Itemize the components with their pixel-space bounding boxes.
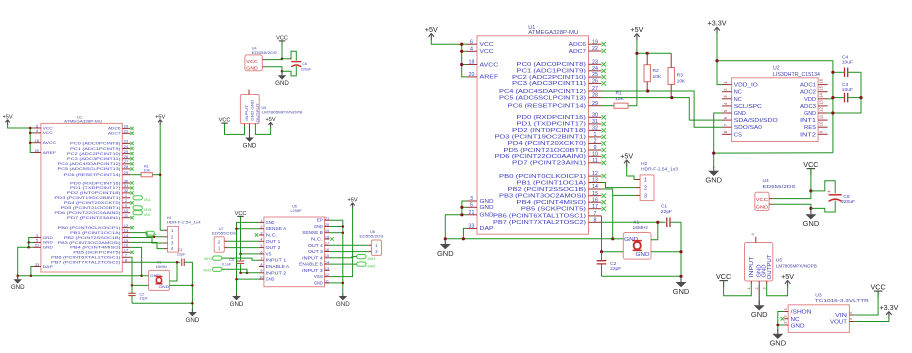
svg-text:OUTPUT: OUTPUT (255, 103, 260, 123)
wire U2 GND pin5 to ground (714, 113, 722, 166)
svg-text:VCC: VCC (716, 272, 731, 281)
crystal X1 16MHz (left page) (149, 260, 170, 290)
svg-text:2: 2 (644, 186, 647, 192)
svg-text:22: 22 (124, 129, 129, 134)
wire U1 GND pins to ground rail (445, 201, 466, 239)
junction dot U4 GND node (left) (281, 70, 284, 73)
svg-text:GND: GND (636, 252, 650, 258)
svg-text:GND: GND (43, 241, 54, 245)
wire bottom ground rail (crystal) (602, 275, 682, 277)
svg-text:VCC: VCC (803, 160, 818, 169)
svg-text:20: 20 (325, 223, 329, 227)
wire U6 INPUT4 to MH3 (330, 257, 357, 258)
svg-text:PC5 (ADC5SCLPCINT13): PC5 (ADC5SCLPCINT13) (499, 95, 586, 101)
svg-text:PC4 (ADC4SDAPCINT12): PC4 (ADC4SDAPCINT12) (499, 89, 586, 95)
no-connect X on U6 N.C. left (255, 233, 258, 236)
wire U5 GND down (758, 285, 760, 305)
svg-text:21: 21 (325, 217, 329, 221)
wire PC5 (SCL) to U2 SDA/SDI/SDO (602, 98, 723, 121)
net labels PD3 PD5 PD6 (left page) (133, 196, 152, 217)
svg-text:VCC: VCC (480, 49, 494, 55)
wire U4 VCC pin to node (left) (265, 58, 282, 61)
junction dot U4 VCC node (809, 189, 812, 192)
svg-text:22pF: 22pF (177, 253, 186, 257)
wire left XOUT up to PB7 wire (169, 262, 177, 281)
svg-text:11: 11 (819, 114, 824, 119)
svg-text:NC: NC (734, 90, 742, 96)
MCU U1 ATMEGA328P-MU (right page) (467, 25, 606, 234)
svg-text:AVCC: AVCC (43, 141, 57, 145)
svg-text:R2: R2 (653, 68, 660, 74)
svg-text:PB1 (PCINT1OC1A): PB1 (PCINT1OC1A) (516, 180, 586, 186)
svg-text:H1: H1 (167, 216, 172, 220)
svg-text:VIN: VIN (835, 313, 847, 319)
MCU U1 ATMEGA328P-MU (left page) (33, 114, 134, 272)
svg-text:17: 17 (592, 204, 598, 210)
capacitor C1 22pF (left page) (177, 248, 186, 266)
svg-text:10K: 10K (653, 74, 662, 80)
svg-text:GND: GND (266, 220, 275, 225)
svg-text:MH1: MH1 (204, 257, 212, 261)
wire PC4 (SDA) to U2 SDO/SA0 (602, 91, 723, 127)
svg-text:U5: U5 (262, 106, 267, 110)
connector U4 ED555/2DS (left page) (245, 47, 278, 71)
svg-text:GND: GND (336, 301, 350, 308)
connector U7 ED555/2DS (212, 227, 237, 252)
ground symbol (U4) (803, 210, 820, 229)
junction dots crystal right rail (679, 250, 682, 278)
svg-text:220uF: 220uF (841, 199, 855, 205)
ground symbol (U2) (705, 166, 722, 185)
svg-text:17: 17 (325, 242, 329, 246)
wire VCC down to U4 node (left) (281, 42, 283, 59)
wire +5V down to U6 VSS (330, 207, 353, 277)
junction dot U4 VCC node (left) (281, 58, 284, 61)
svg-text:PB4 (PCINT4MISO): PB4 (PCINT4MISO) (70, 246, 121, 250)
wire PB2 to H2 pin3 (602, 189, 636, 195)
svg-text:+5V: +5V (620, 151, 633, 160)
svg-text:SENSE B: SENSE B (302, 230, 323, 235)
svg-text:PC5 (ADC5SCLPCINT13): PC5 (ADC5SCLPCINT13) (58, 167, 122, 171)
svg-text:VCC: VCC (43, 131, 54, 135)
svg-text:GND: GND (804, 111, 816, 117)
svg-text:PD4 (PCINT20XCKT0): PD4 (PCINT20XCKT0) (64, 201, 122, 205)
wire caps right rail (833, 72, 861, 113)
wire U6 EP/GND/SENSE B to ground rail (330, 220, 343, 293)
svg-text:ED555/2DS: ED555/2DS (359, 235, 384, 239)
svg-text:GND: GND (705, 176, 722, 185)
svg-text:PB1 (PCINT1OC1A): PB1 (PCINT1OC1A) (70, 231, 121, 235)
svg-text:VSS: VSS (314, 274, 323, 279)
svg-text:+: + (828, 190, 831, 196)
svg-text:10uF: 10uF (842, 87, 853, 93)
svg-text:LM7805MPX/NOPB: LM7805MPX/NOPB (262, 111, 304, 115)
svg-text:DAP: DAP (43, 265, 54, 269)
svg-text:TC1016-3.3VLTTR: TC1016-3.3VLTTR (815, 298, 870, 304)
svg-text:15: 15 (592, 191, 598, 197)
svg-text:PD5 (PCINT21OC0BT1): PD5 (PCINT21OC0BT1) (61, 206, 122, 210)
resistor R2 10K (644, 53, 662, 91)
svg-text:PC6 (RESETPCINT14): PC6 (RESETPCINT14) (64, 173, 122, 177)
svg-text:32: 32 (592, 126, 598, 132)
wire U3 /SHDN and GND to ground (778, 312, 784, 332)
svg-text:6: 6 (260, 250, 262, 254)
svg-text:OUT 4: OUT 4 (308, 243, 324, 248)
junction dot crystal left GND (600, 250, 603, 253)
svg-text:PC3 (ADC3PCINT11): PC3 (ADC3PCINT11) (67, 157, 122, 161)
svg-text:ED555/2DS: ED555/2DS (212, 232, 237, 236)
power flag +5V (pullups R2 R3) (630, 25, 643, 41)
junction dot U3 ground (776, 324, 779, 327)
svg-text:GND: GND (480, 205, 494, 211)
wire AVCC stub (462, 64, 467, 66)
svg-text:6: 6 (470, 39, 473, 45)
svg-text:PB5 (SCKPCINT5): PB5 (SCKPCINT5) (73, 251, 121, 255)
ground symbol (U6 right) (336, 293, 350, 308)
svg-text:10K: 10K (144, 169, 151, 173)
no-connect X on U6 N.C. right (330, 237, 333, 240)
net label SER (H1 pin2) (146, 231, 157, 235)
svg-text:GND GND: GND GND (249, 100, 254, 121)
svg-text:16MHz: 16MHz (633, 225, 649, 231)
svg-text:VDD_IO: VDD_IO (734, 83, 758, 89)
capacitor C4 10uF (833, 55, 861, 78)
junction dot R3 on PC5 wire (670, 96, 673, 99)
svg-text:INPUT 3: INPUT 3 (302, 268, 324, 273)
svg-text:PC2 (ADC2PCINT10): PC2 (ADC2PCINT10) (67, 152, 122, 156)
wire VCC to U5 INPUT (left) (225, 123, 245, 134)
junction dot left XOUT (176, 261, 179, 264)
svg-text:PC2 (ADC2PCINT10): PC2 (ADC2PCINT10) (512, 75, 586, 81)
junction dots INPUT2 node (239, 272, 248, 275)
net label MH1 (204, 256, 222, 261)
wire crystal right GND stub (651, 251, 681, 253)
svg-text:2: 2 (260, 225, 262, 229)
svg-text:12: 12 (325, 273, 329, 277)
junction dot VS node (239, 253, 242, 256)
svg-text:PD0 (RXDPCINT16): PD0 (RXDPCINT16) (516, 115, 586, 121)
wire +5V to U5 OUTPUT (767, 285, 788, 296)
svg-text:PD5 (PCINT21OC0BT1): PD5 (PCINT21OC0BT1) (503, 148, 586, 154)
svg-text:AREF: AREF (480, 75, 499, 81)
power flag +3.3V (U3 output) (879, 303, 898, 319)
svg-text:GND: GND (769, 339, 786, 348)
svg-text:7: 7 (594, 211, 597, 217)
wire U4 GND pin to node (left) (265, 67, 282, 72)
svg-text:INPUT: INPUT (749, 255, 755, 277)
power flag VCC (left U4) (276, 36, 288, 46)
wire PB2 to H1 pin3 (130, 238, 164, 244)
svg-text:PC6 (RESETPCINT14): PC6 (RESETPCINT14) (508, 104, 587, 110)
svg-text:GND: GND (480, 199, 494, 205)
power flag +5V (U5 output) (781, 272, 794, 288)
svg-text:11: 11 (325, 279, 329, 283)
svg-text:10: 10 (819, 121, 824, 126)
svg-text:13: 13 (325, 267, 329, 271)
svg-text:ADC2: ADC2 (800, 90, 816, 96)
svg-text:18: 18 (35, 138, 40, 143)
svg-text:U7: U7 (219, 227, 224, 231)
wire VCC to U5 INPUT (724, 281, 752, 296)
svg-text:LM7805MPX/NOPB: LM7805MPX/NOPB (776, 263, 817, 269)
junction dot R1 right (159, 173, 162, 176)
svg-text:PD6 (PCINT22OC0AAIN0): PD6 (PCINT22OC0AAIN0) (54, 211, 121, 215)
svg-text:GND: GND (230, 301, 244, 308)
wire ground rail to crystal XIN (445, 238, 613, 240)
svg-text:HDR-F-2.54_1x3: HDR-F-2.54_1x3 (641, 167, 678, 173)
svg-text:PD3 (PCINT19OC2BINT1): PD3 (PCINT19OC2BINT1) (495, 135, 587, 141)
svg-text:GND: GND (751, 310, 768, 319)
wire PB1 to H2 pin2 (602, 183, 636, 188)
svg-text:AVCC: AVCC (480, 62, 499, 68)
wire DAP pin to ground rail (463, 228, 466, 238)
svg-text:SCL/SPC: SCL/SPC (734, 104, 762, 110)
wire +5V rail down to R1 (628, 39, 637, 105)
svg-text:ADC3: ADC3 (800, 104, 816, 110)
junction dots left VCC bus (29, 127, 32, 144)
svg-text:33: 33 (469, 224, 475, 230)
capacitor C1 22pF (661, 204, 672, 228)
svg-text:N.C.: N.C. (266, 233, 278, 238)
svg-text:GND: GND (314, 224, 323, 229)
svg-text:1: 1 (260, 219, 262, 223)
svg-text:12: 12 (819, 107, 824, 112)
svg-text:U3: U3 (815, 293, 822, 299)
wire XIN stub (613, 238, 624, 240)
svg-text:OUTPUT: OUTPUT (767, 254, 773, 280)
regulator U5 LM7805MPX/NOPB (left page) (240, 90, 303, 126)
svg-text:PB7 (PCINT7XTAL2TOSC2): PB7 (PCINT7XTAL2TOSC2) (493, 220, 586, 226)
svg-text:28: 28 (124, 164, 129, 169)
svg-text:PB4 (PCINT4MISO): PB4 (PCINT4MISO) (516, 200, 586, 206)
wire +3.3V branch to caps (717, 61, 833, 153)
wire PB7 to C1 (left page) (130, 261, 180, 263)
wire VCC to U3 VIN (854, 292, 878, 316)
wire +5V vertical to R1 and H1 pin1 (160, 124, 164, 230)
junction dots right rail (left page) (191, 284, 194, 304)
svg-text:EP: EP (317, 218, 323, 223)
svg-text:22pF: 22pF (661, 209, 672, 215)
wire +5V to left U1 VCC (8, 124, 31, 128)
svg-text:3: 3 (762, 288, 766, 290)
svg-text:GND: GND (734, 111, 746, 117)
svg-text:HDR-F-2.54_1x4: HDR-F-2.54_1x4 (167, 221, 201, 225)
motor driver U6 L298P (259, 205, 330, 287)
svg-text:VS: VS (266, 251, 272, 256)
svg-text:C6: C6 (302, 62, 307, 66)
svg-text:M1B: M1B (144, 208, 152, 212)
svg-text:11: 11 (592, 158, 598, 164)
capacitor C6 220uF polarized (811, 181, 855, 212)
svg-text:INT1: INT1 (800, 118, 816, 124)
wire +5V to H2 pin1 (627, 165, 636, 179)
junction dot left XIN (140, 275, 143, 278)
capacitor C3 10uF (833, 82, 861, 102)
wire U6 OUT4 to U8 pin1 (330, 244, 369, 246)
svg-text:M2L: M2L (144, 213, 151, 217)
svg-text:ED555/2DS: ED555/2DS (763, 184, 797, 190)
svg-text:+5V: +5V (781, 272, 794, 281)
svg-text:GND: GND (266, 277, 275, 282)
svg-text:MH2: MH2 (203, 268, 211, 272)
wire U4 VCC pin to node (773, 191, 811, 199)
svg-text:VCC: VCC (756, 197, 769, 203)
power flag +5V (left U5 output) (266, 117, 276, 128)
accelerometer U2 LIS3DHTR_C15134 (722, 65, 828, 141)
svg-text:+3.3V: +3.3V (879, 303, 898, 312)
ground symbol (crystal) (673, 277, 690, 296)
resistor R3 10K (668, 53, 686, 97)
wire PB1 to H1 pin2 (130, 233, 164, 237)
svg-text:GND: GND (11, 284, 25, 291)
svg-text:C1: C1 (661, 204, 668, 210)
svg-text:LIS3DHTR_C15134: LIS3DHTR_C15134 (773, 72, 820, 78)
wire U7 pin1 to U6 OUT2 (227, 247, 259, 249)
svg-text:10uF: 10uF (842, 60, 853, 66)
wire U6 OUT3 to U8 pin2 (330, 251, 369, 253)
wire bottom ground rail (left crystal) (132, 302, 192, 304)
svg-text:GND: GND (186, 317, 200, 324)
svg-text:18: 18 (469, 60, 475, 66)
svg-text:PD4 (PCINT20XCKT0): PD4 (PCINT20XCKT0) (508, 141, 587, 147)
svg-text:INPUT 2: INPUT 2 (266, 270, 288, 275)
wire +3.3V down to VDD_IO (717, 33, 722, 85)
svg-text:GND: GND (159, 284, 170, 289)
net label MH4 (357, 262, 376, 269)
svg-text:PB3 (PCINT3OC2AMOSI): PB3 (PCINT3OC2AMOSI) (58, 241, 122, 245)
resistor R1 10K (left page) (130, 165, 160, 177)
regulator U5 LM7805MPX/NOPB (745, 233, 817, 290)
svg-text:ENABLE A: ENABLE A (266, 264, 290, 269)
svg-text:PD0 (RXDPCINT16): PD0 (RXDPCINT16) (70, 181, 121, 185)
svg-text:ATMEGA328P-MU: ATMEGA328P-MU (64, 119, 102, 124)
junction dot U2 ground (712, 152, 715, 155)
capacitor C5 0.1uF (222, 254, 244, 273)
wire H2 pin3 node down to crystal XIN (612, 195, 614, 238)
svg-text:16MHz: 16MHz (155, 265, 167, 269)
wire left ground rail to crystal (18, 275, 142, 277)
svg-text:VCC: VCC (480, 42, 494, 48)
svg-text:DAP: DAP (480, 226, 495, 232)
svg-text:16: 16 (325, 248, 329, 252)
svg-text:ED555/2DS: ED555/2DS (252, 51, 278, 55)
resistor R1 10K (reset pullup) (614, 91, 628, 109)
svg-text:30: 30 (592, 112, 598, 118)
wire +5V to U1 VCC pins (431, 39, 461, 44)
svg-text:INT2: INT2 (800, 132, 816, 138)
wire MH1 to U6 INPUT1 (222, 258, 259, 260)
svg-text:PB5 (SCKPCINT5): PB5 (SCKPCINT5) (521, 207, 587, 213)
svg-text:1: 1 (747, 288, 751, 290)
wire U6 ENABLE B to MH4 (330, 263, 357, 265)
svg-text:INPUT: INPUT (244, 104, 249, 121)
svg-text:NC: NC (734, 97, 742, 103)
ground symbol (U6 left) (230, 293, 244, 308)
svg-text:N.C.: N.C. (311, 237, 323, 242)
capacitor C2 22pF (left page) (128, 285, 148, 303)
svg-text:L298P: L298P (291, 209, 302, 213)
svg-text:8: 8 (260, 263, 262, 267)
svg-text:8: 8 (594, 217, 597, 223)
junction dots cap rail (831, 71, 862, 115)
wire VCC to U6 VS (241, 217, 259, 254)
junction dots on VCC bus (460, 43, 463, 66)
svg-text:PD1 (TXDPCINT17): PD1 (TXDPCINT17) (516, 122, 586, 128)
ground symbol (left U1) (11, 276, 25, 291)
svg-text:PB6 (PCINT6XTAL1TOSC1): PB6 (PCINT6XTAL1TOSC1) (51, 256, 121, 260)
wire U4 GND pin to node (773, 204, 811, 208)
power flag VCC (U3 input) (871, 282, 886, 297)
junction dot +5V branch (635, 52, 649, 55)
wire U7 pin2 to U6 OUT1 (227, 240, 259, 242)
svg-text:NC: NC (791, 317, 800, 323)
svg-text:14: 14 (592, 184, 598, 190)
wire crystal right GND stub (left page) (169, 284, 192, 286)
svg-text:PD3 (PCINT19OC2BINT1): PD3 (PCINT19OC2BINT1) (54, 196, 121, 200)
svg-text:3: 3 (260, 231, 262, 235)
wire left U1 GND pins to rail (18, 238, 33, 276)
svg-text:2: 2 (755, 288, 759, 290)
svg-text:GND: GND (43, 246, 54, 250)
svg-text:29: 29 (592, 101, 598, 107)
net label MH2 (203, 267, 222, 272)
svg-text:22pF: 22pF (610, 266, 621, 272)
svg-text:GND: GND (246, 66, 257, 71)
svg-text:SDO/SA0: SDO/SA0 (734, 125, 762, 131)
wire PB6 down to crystal ground node (601, 216, 603, 252)
svg-text:3: 3 (644, 193, 647, 199)
svg-text:/SHDN: /SHDN (791, 310, 812, 316)
svg-text:PB3 (PCINT3OC2AMOSI): PB3 (PCINT3OC2AMOSI) (499, 194, 586, 200)
svg-text:25: 25 (592, 72, 598, 78)
svg-text:U5: U5 (776, 258, 783, 264)
svg-text:7: 7 (260, 257, 262, 261)
wire PB3 to H1 pin4 (130, 242, 164, 248)
power flag VCC (U4) (803, 160, 818, 175)
svg-text:29: 29 (124, 170, 129, 175)
svg-text:C4: C4 (842, 55, 849, 61)
capacitor C6 220uF polarized (left page) (282, 51, 312, 76)
wire VCC vertical bus (462, 44, 467, 77)
junction dot U4 GND node (809, 207, 812, 210)
svg-text:4: 4 (470, 46, 473, 52)
power flag +3.3V (U2) (708, 19, 727, 34)
wire U2 VDD to cap rail (828, 98, 833, 100)
svg-text:16: 16 (592, 197, 598, 203)
svg-text:GND: GND (437, 249, 454, 258)
svg-text:21: 21 (35, 243, 40, 248)
wire left DAP to rail (31, 267, 33, 276)
svg-text:10: 10 (259, 276, 263, 280)
svg-text:ADC7: ADC7 (569, 49, 587, 55)
svg-text:GND: GND (803, 219, 820, 228)
wire PB7 to C1 (602, 221, 666, 223)
svg-text:PD7 (PCINT23AIN1): PD7 (PCINT23AIN1) (512, 161, 586, 167)
svg-text:VOUT: VOUT (830, 320, 848, 326)
svg-text:16: 16 (819, 78, 824, 83)
svg-text:26: 26 (592, 79, 598, 85)
svg-text:1: 1 (644, 178, 647, 184)
ground symbol (left crystal) (186, 309, 200, 324)
junction dot +3.3V branch (715, 59, 718, 62)
svg-text:20: 20 (35, 148, 40, 153)
svg-text:10: 10 (592, 151, 598, 157)
svg-text:INPUT 1: INPUT 1 (266, 258, 288, 263)
svg-text:PB0 (PCINT0CLKOICP1): PB0 (PCINT0CLKOICP1) (499, 174, 586, 180)
svg-text:PC3 (ADC3PCINT11): PC3 (ADC3PCINT11) (512, 81, 586, 87)
svg-text:ADC1: ADC1 (800, 83, 816, 89)
svg-text:14: 14 (819, 92, 824, 97)
